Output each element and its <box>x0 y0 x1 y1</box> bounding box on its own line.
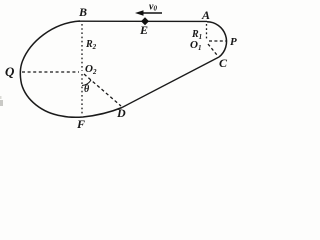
wire straight line D-C <box>122 57 219 108</box>
big circle arc B-Q-F-D <box>20 21 122 117</box>
svg-text:θ: θ <box>84 84 90 95</box>
svg-text:O2: O2 <box>85 63 97 76</box>
dashed radius Q-O2 <box>22 71 79 73</box>
svg-text:F: F <box>76 117 85 131</box>
svg-text:R2: R2 <box>85 39 97 51</box>
svg-text:P: P <box>230 36 237 48</box>
svg-text:E: E <box>139 23 148 37</box>
svg-text:D: D <box>116 106 126 120</box>
dashed radius O1-P <box>209 40 226 42</box>
small circle arc A-P-C <box>207 22 227 57</box>
wire top line A-B <box>78 20 207 22</box>
svg-text:A: A <box>201 8 210 22</box>
svg-text:B: B <box>78 5 87 19</box>
arrow v0 <box>141 12 162 14</box>
scan smudge left edge <box>0 100 3 106</box>
dashed radius O1-C <box>208 44 217 55</box>
dashed radius B-O2 <box>81 24 83 71</box>
dashed radius A-O1 <box>206 24 208 40</box>
dashed radius O2-F <box>81 74 83 115</box>
dashed radius O2-D <box>84 74 121 106</box>
node E dot <box>141 17 149 25</box>
svg-text:v0: v0 <box>149 2 157 13</box>
svg-text:Q: Q <box>5 64 15 79</box>
angle theta arc <box>82 80 91 86</box>
svg-text:C: C <box>219 56 228 70</box>
